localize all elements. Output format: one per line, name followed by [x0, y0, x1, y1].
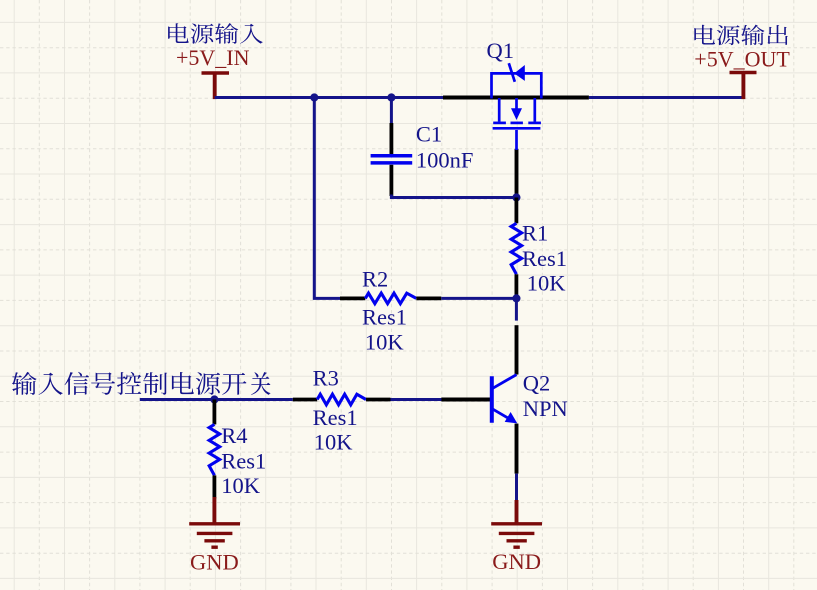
resistor R4 — [209, 400, 220, 499]
text label 输入信号控制电源开关 — [12, 372, 271, 395]
junction rail-R2 — [310, 93, 318, 101]
junction R1-R2-Q2 — [512, 294, 520, 302]
wire R3 to Q2 base — [391, 398, 443, 401]
resistor R3 — [293, 394, 391, 405]
wire Q2 emitter to ground — [515, 474, 518, 502]
svg-text:R3: R3 — [313, 365, 339, 390]
wire to Q2 collector — [515, 298, 518, 320]
wire rail to C1 — [390, 98, 393, 125]
resistor R1 — [511, 198, 522, 299]
svg-text:100nF: 100nF — [416, 147, 474, 172]
wire rail left — [215, 96, 443, 99]
wire rail right — [589, 96, 744, 99]
svg-text:C1: C1 — [416, 122, 442, 147]
junction rail-C1 — [387, 93, 395, 101]
wire rail to R2 — [314, 98, 340, 299]
svg-text:+5V_IN: +5V_IN — [176, 45, 250, 70]
svg-text:+5V_OUT: +5V_OUT — [694, 47, 790, 72]
svg-text:NPN: NPN — [523, 396, 568, 421]
Q1 gate pin — [515, 149, 519, 198]
svg-text:Res1: Res1 — [362, 305, 407, 330]
text label 电源输入 — [168, 23, 263, 44]
junction input-R4 — [210, 395, 218, 403]
text label 电源输出 — [694, 25, 788, 46]
svg-text:10K: 10K — [314, 429, 354, 454]
svg-text:Q2: Q2 — [523, 371, 551, 396]
svg-text:Res1: Res1 — [522, 246, 567, 271]
svg-text:GND: GND — [190, 549, 239, 574]
Q2 emitter pin — [515, 424, 519, 474]
svg-text:R4: R4 — [221, 423, 247, 448]
Q2 base pin — [441, 398, 490, 402]
mosfet Q1 — [492, 63, 542, 150]
svg-text:GND: GND — [492, 549, 541, 574]
Q1 source/drain pins — [443, 96, 589, 100]
Q2 collector pin — [515, 325, 519, 374]
resistor R2 — [340, 293, 441, 304]
svg-text:10K: 10K — [527, 270, 567, 295]
power port +5V_OUT bar — [730, 73, 757, 100]
svg-text:Res1: Res1 — [313, 405, 358, 430]
power port +5V_IN bar — [202, 73, 230, 99]
junction gate node — [512, 193, 520, 201]
wire C1 to gate node — [391, 195, 516, 198]
wire R2 to junction — [441, 297, 516, 300]
transistor Q2 — [492, 375, 518, 424]
svg-text:Res1: Res1 — [221, 448, 266, 473]
svg-text:R1: R1 — [522, 221, 548, 246]
capacitor C1 — [371, 123, 413, 196]
ground (R4) — [189, 497, 240, 547]
wire input net — [140, 398, 293, 401]
svg-text:R2: R2 — [362, 266, 388, 291]
svg-text:10K: 10K — [365, 329, 405, 354]
ground (Q2) — [491, 500, 542, 547]
svg-text:Q1: Q1 — [487, 38, 515, 63]
svg-text:10K: 10K — [221, 473, 260, 498]
